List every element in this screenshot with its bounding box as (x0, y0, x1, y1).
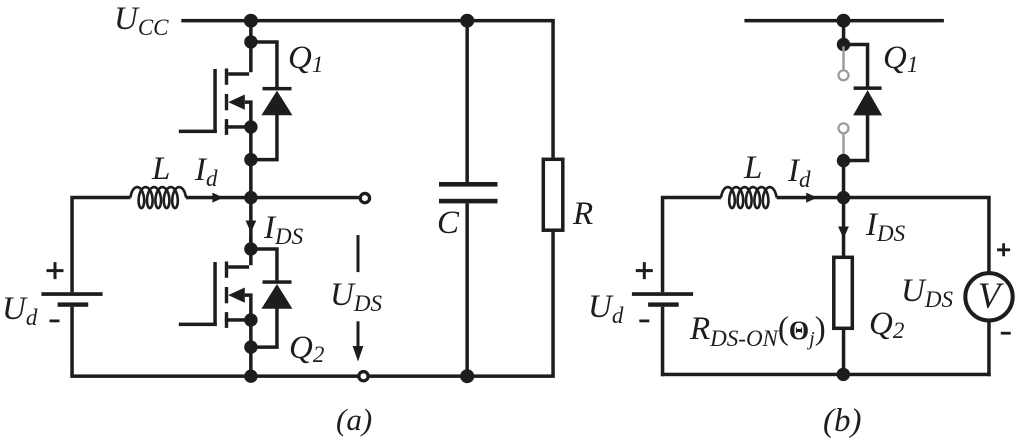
svg-text:UCC: UCC (114, 1, 169, 40)
junction dot top rail / C (460, 14, 474, 28)
battery Ud plus sign (a) (47, 262, 64, 279)
svg-text:IDS: IDS (865, 207, 906, 246)
wire switch node to resistor (b) (842, 198, 846, 256)
junction dot Q2 diode return (244, 340, 257, 353)
wire top rail (b) (744, 19, 944, 23)
voltage UDS annotation arrow (357, 321, 360, 348)
svg-text:Q2: Q2 (869, 306, 904, 343)
junction dot Q2 drain node (244, 242, 257, 255)
transistor Q2 body lead (245, 293, 253, 320)
inductor L left wire (a) (70, 196, 130, 292)
battery Ud plus sign (b) (636, 262, 653, 279)
junction dot switch node (b) (837, 191, 850, 204)
diode Q1 cathode bar (b) (854, 86, 882, 90)
battery Ud short plate (a) (58, 302, 89, 306)
diode Q1 top elbow wire (b) (842, 43, 870, 87)
open terminal bottom (a) (359, 372, 368, 381)
current IDS arrowhead (a) (246, 221, 257, 233)
transistor Q1 body arrow (228, 95, 245, 110)
voltmeter plus sign (997, 243, 1010, 256)
diode Q1 triangle (b) (853, 90, 882, 115)
svg-text:Id: Id (787, 153, 811, 192)
resistor R (543, 159, 563, 230)
battery Ud long plate (b) (632, 292, 693, 296)
wire inductor to switch node (a) (186, 196, 251, 200)
svg-text:RDS-ON(Θj): RDS-ON(Θj) (689, 311, 826, 351)
svg-text:Id: Id (194, 152, 218, 191)
wire R branch bottom vertical (551, 230, 555, 376)
battery Ud long plate (a) (41, 292, 102, 296)
wire Q2 source to bottom rail (249, 320, 253, 376)
Q1 body-diode top elbow wire (249, 40, 279, 87)
svg-text:Q2: Q2 (289, 330, 324, 367)
junction dot Q2 source (244, 313, 257, 326)
wire UCC dot to Q1 (249, 21, 253, 43)
open terminal top (a) (360, 193, 369, 202)
svg-text:Q1: Q1 (288, 40, 323, 77)
inductor L coil (a) (130, 187, 186, 208)
Q2 body-diode cathode bar (263, 280, 292, 284)
svg-text:UDS: UDS (901, 273, 953, 312)
battery Ud minus sign (a) (50, 320, 60, 323)
junction dot switch node (a) (244, 191, 257, 204)
transistor Q1 gate bar (213, 69, 217, 133)
svg-text:UDS: UDS (330, 277, 382, 316)
svg-text:Ud: Ud (2, 291, 38, 330)
wire bottom rail (a) (70, 374, 555, 378)
junction dot bottom rail / Q2 (244, 370, 257, 383)
wire switch node to output terminal (251, 196, 359, 200)
transistor Q1 channel segment drain (225, 69, 228, 85)
wire C branch top vertical (465, 21, 469, 183)
svg-text:L: L (151, 151, 170, 187)
transistor Q2 gate lead (179, 323, 217, 327)
transistor Q1 body lead (245, 100, 253, 127)
wire Q1 source to switch node (249, 127, 253, 249)
capacitor C bottom plate (439, 199, 498, 204)
wire rail to switch (b) (842, 21, 846, 45)
wire top rail (a) (181, 19, 555, 23)
voltmeter V circle (965, 273, 1012, 320)
transistor Q2 body arrow (228, 288, 245, 303)
transistor Q1 channel segment source (225, 119, 228, 135)
transistor Q1 channel segment body (225, 94, 228, 110)
inductor L left wire (b) (661, 196, 721, 292)
transistor Q1 gate lead (179, 130, 217, 134)
transistor Q2 channel segment body (225, 287, 228, 303)
Q1 body-diode cathode bar (263, 87, 292, 91)
capacitor C top plate (439, 182, 498, 187)
wire battery to bottom rail (a) (70, 307, 74, 376)
transistor Q2 channel segment drain (225, 262, 228, 278)
svg-text:(b): (b) (823, 403, 861, 439)
Q2 body-diode bottom elbow wire (249, 309, 279, 349)
switch open contact upper wire (gray) (842, 45, 844, 70)
switch open contact lower wire (gray) (842, 134, 844, 160)
current Id arrowhead (a) (212, 193, 223, 203)
transistor Q2 channel segment source (225, 312, 228, 328)
wire bottom rail (b) (661, 373, 991, 377)
transistor Q1 source lead (225, 125, 251, 129)
transistor Q2 drain lead (228, 235, 252, 269)
wire battery to bottom rail (b) (661, 307, 665, 376)
junction dot Q1 drain node (244, 35, 257, 48)
current Id arrowhead (b) (806, 193, 817, 203)
transistor Q2 gate bar (213, 262, 217, 326)
svg-text:C: C (437, 205, 460, 241)
wire C branch bottom vertical (465, 203, 469, 376)
junction dot Q1 diode return (244, 153, 257, 166)
svg-text:IDS: IDS (263, 210, 304, 249)
inductor L coil (b) (721, 187, 777, 208)
svg-text:R: R (572, 196, 593, 232)
voltage UDS annotation line (357, 235, 360, 272)
svg-text:Q1: Q1 (883, 40, 918, 77)
wire R branch top vertical (551, 21, 555, 158)
voltmeter minus sign (1001, 332, 1011, 335)
resistor RDS-ON box (Q2) (834, 257, 853, 328)
switch open contact lower terminal (gray circle) (839, 123, 849, 133)
junction dot top rail (b) (837, 14, 851, 28)
junction dot bottom rail / C (460, 369, 474, 383)
switch open contact upper terminal (gray circle) (839, 70, 849, 80)
junction dot top rail / Q1 (244, 14, 258, 28)
Q1 body-diode triangle (261, 91, 292, 116)
transistor Q1 drain lead (228, 42, 252, 76)
wire inductor to switch node (b) (777, 196, 844, 200)
battery Ud minus sign (b) (639, 320, 649, 323)
wire resistor to bottom rail (b) (842, 328, 846, 376)
Q1 body-diode bottom elbow wire (249, 115, 279, 161)
Q2 body-diode triangle (261, 284, 292, 309)
wire switch node to voltmeter (b) (844, 196, 991, 272)
diode Q1 bottom elbow wire (b) (842, 115, 870, 162)
svg-text:(a): (a) (336, 402, 372, 437)
wire voltmeter to bottom rail (b) (987, 321, 991, 377)
current IDS arrowhead (b) (838, 227, 849, 239)
junction dot Q1 return node (b) (837, 154, 850, 167)
Q2 body-diode top elbow wire (249, 247, 279, 280)
junction dot bottom rail (b) (837, 368, 850, 381)
junction dot Q1 drain node (b) (837, 38, 850, 51)
transistor Q2 source lead (225, 318, 251, 322)
svg-text:Ud: Ud (588, 289, 624, 328)
svg-text:L: L (743, 150, 762, 186)
junction dot Q1 source (244, 120, 257, 133)
wire Q1 to switch node (b) (842, 161, 846, 198)
battery Ud short plate (b) (648, 302, 679, 306)
